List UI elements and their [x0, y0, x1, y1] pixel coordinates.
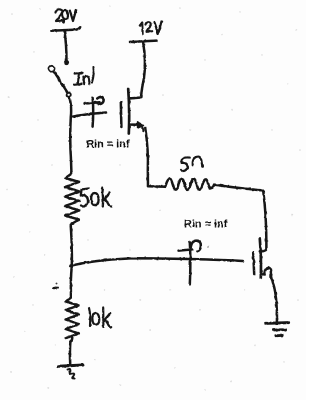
label 5ohm (handwritten)	[181, 157, 204, 171]
switch In1 (open switch)	[49, 66, 55, 72]
resistor R2 10k zigzag	[66, 296, 79, 342]
transistor Q2 source dash	[262, 273, 265, 276]
wire to 5ohm resistor	[148, 185, 166, 188]
ground left squiggle	[68, 369, 75, 378]
transistor Q1 gate bar	[120, 102, 123, 127]
node marker (plus-probe) at Q1 gate	[85, 97, 104, 127]
label 50k (handwritten)	[81, 188, 112, 207]
wire from switch down to 50k	[69, 97, 71, 172]
transistor Q1 body arrow	[138, 122, 144, 128]
svg-text:Rin = inf: Rin = inf	[184, 218, 228, 230]
transistor Q1 drain lead	[129, 98, 141, 99]
stray pen dash	[53, 288, 58, 289]
label 10k (handwritten)	[89, 308, 111, 328]
wire 10k to ground	[69, 342, 72, 364]
resistor R3 5ohm zigzag	[166, 179, 215, 190]
wire 20V stub down	[65, 31, 67, 60]
resistor R1 50k zigzag	[65, 172, 79, 227]
transistor Q1 channel bar	[127, 89, 131, 134]
wire corner down to Q2 drain	[260, 191, 267, 251]
supply 12V terminal bar	[130, 41, 157, 42]
wire junction down to 10k	[70, 266, 73, 296]
transistor Q1 source dash	[132, 123, 137, 126]
label 20V (handwritten)	[56, 9, 77, 22]
transistor Q2 gate bar	[253, 253, 254, 275]
ground right	[266, 323, 289, 336]
wire 50k to junction	[71, 227, 72, 266]
wire long horizontal to Q2 gate	[70, 258, 243, 266]
wire Q1 source down	[145, 128, 148, 187]
supply 20V terminal bar	[51, 27, 80, 31]
transistor Q2 body arrow hook	[264, 268, 271, 277]
label In1 (handwritten)	[74, 67, 94, 85]
wire 5ohm to corner	[214, 185, 263, 191]
transistor Q2 channel bar	[260, 239, 261, 278]
wire gate branch to node marker	[71, 113, 106, 118]
node dot at 20V stub end	[64, 60, 69, 65]
wire Q2 source down to ground	[271, 277, 277, 322]
node marker (plus-probe) at Q2 gate	[179, 241, 201, 285]
wire 12V down to Q1 drain	[141, 43, 145, 98]
ground left bar	[59, 365, 84, 366]
svg-text:Rin = inf: Rin = inf	[86, 139, 130, 151]
label 12V (handwritten)	[140, 21, 162, 34]
